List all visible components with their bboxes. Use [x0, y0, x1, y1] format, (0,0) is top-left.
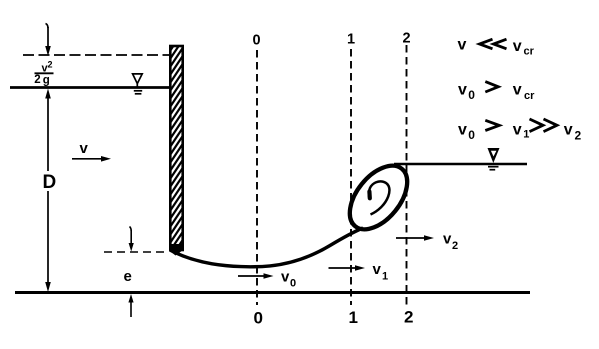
svg-text:2: 2 [48, 60, 53, 70]
gate opening dashed line [104, 251, 168, 253]
label v^2/2g [34, 60, 53, 87]
svg-text:2: 2 [452, 240, 458, 252]
svg-text:cr: cr [524, 46, 535, 58]
energy grade line (dashed) [23, 54, 169, 56]
svg-text:1: 1 [347, 32, 355, 48]
inequality v &lt;&lt; vcr [458, 37, 535, 58]
svg-text:v: v [458, 82, 467, 99]
svg-text:v: v [458, 37, 467, 54]
approach velocity label v with arrow [72, 140, 111, 162]
svg-text:0: 0 [468, 128, 475, 142]
svg-text:v: v [443, 231, 452, 248]
section line 0 (dashed) [253, 33, 263, 328]
dimension e upper arrow [129, 227, 134, 252]
roller ellipse [339, 155, 419, 240]
roller spiral [369, 181, 390, 214]
inequality v0 &gt; v1 &gt;&gt; v2 [458, 119, 582, 143]
svg-text:1: 1 [382, 271, 388, 283]
section line 2 (dashed) [403, 31, 414, 327]
head drop dimension arrow [45, 24, 51, 57]
svg-text:0: 0 [290, 278, 296, 290]
svg-text:0: 0 [468, 88, 475, 102]
upstream water surface marker [133, 74, 143, 94]
svg-text:v: v [80, 140, 89, 157]
svg-text:2: 2 [404, 308, 413, 327]
svg-text:v: v [564, 122, 573, 139]
svg-text:v: v [281, 269, 290, 286]
svg-text:2: 2 [403, 31, 411, 47]
svg-text:v: v [513, 82, 522, 99]
section line 1 (dashed) [347, 32, 358, 328]
upstream water surface line [10, 86, 169, 89]
svg-text:v: v [458, 122, 467, 139]
svg-text:1: 1 [349, 308, 358, 327]
velocity arrow v1 [329, 261, 389, 283]
svg-text:0: 0 [253, 33, 261, 49]
velocity arrow v0 [238, 269, 296, 290]
downstream water surface line [394, 163, 527, 166]
svg-text:g: g [43, 75, 50, 87]
svg-text:v: v [513, 122, 522, 139]
jet profile curve [170, 228, 363, 267]
svg-text:v: v [513, 38, 522, 55]
channel bed line [15, 291, 530, 294]
svg-text:2: 2 [575, 129, 582, 143]
sluice gate (hatched) [168, 27, 186, 262]
downstream water surface marker [488, 148, 500, 170]
svg-text:cr: cr [524, 90, 535, 102]
svg-text:e: e [124, 268, 132, 285]
svg-text:1: 1 [523, 129, 529, 141]
svg-text:v: v [373, 261, 382, 278]
svg-text:2: 2 [34, 74, 40, 86]
inequality v0 &gt; vcr [458, 82, 535, 103]
svg-text:D: D [43, 172, 57, 193]
velocity arrow v2 [396, 231, 458, 253]
dimension e lower arrow [128, 294, 133, 317]
svg-text:0: 0 [254, 309, 263, 328]
dimension D line with arrows [45, 89, 51, 293]
